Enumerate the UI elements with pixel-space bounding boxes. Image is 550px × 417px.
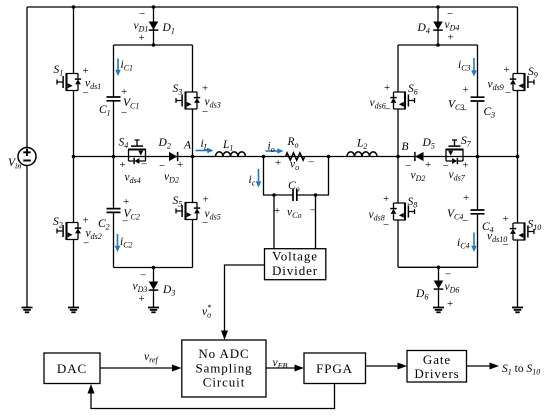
wire S9-S10 rail [517,7,519,308]
current iC4 [473,233,475,247]
svg-text:−: − [83,88,89,100]
current iC2 [117,234,119,247]
inductor L2 [347,152,377,157]
wire Gate Drivers output arrow [467,365,491,367]
block Gate Drivers [407,351,467,383]
block Voltage Divider [265,249,326,280]
wire D4 branch [437,7,439,45]
svg-text:iL: iL [201,138,209,152]
svg-text:L1: L1 [222,139,233,153]
wire voltage divider taps [274,195,316,249]
diode D3 [149,282,159,291]
svg-text:Sampling: Sampling [195,360,252,375]
node A [191,155,195,159]
wire D6 branch [438,267,440,307]
transistor S7 (horizontal, gate up, drain right) [446,140,464,164]
svg-text:+: + [384,82,390,94]
transistor S6 (mirrored) [390,92,414,110]
svg-text:DAC: DAC [57,361,87,376]
svg-text:ic: ic [249,174,256,188]
wire cell1 bottom [114,267,193,269]
svg-text:D3: D3 [162,284,175,298]
svg-text:+: + [425,159,431,171]
svg-text:−: − [505,87,511,99]
node B [396,155,400,159]
svg-text:+: + [275,157,281,169]
current iC1 [117,59,119,71]
svg-text:S1: S1 [54,64,64,78]
svg-text:−: − [445,269,451,281]
svg-text:+: + [503,213,509,225]
current io [266,150,279,152]
block No ADC Sampling Circuit [182,340,266,397]
svg-text:io: io [268,141,275,155]
svg-text:+: + [274,205,280,217]
transistor S9 (mirrored) [510,73,534,91]
svg-text:iC2: iC2 [120,236,133,250]
svg-text:B: B [402,141,409,153]
svg-text:S2: S2 [53,216,63,230]
transistor S4 (horizontal, gate up, drain left) [128,140,146,164]
svg-text:+: + [463,84,469,96]
svg-text:+: + [447,298,453,310]
transistor S1 [57,73,81,91]
ground S2 [68,308,79,313]
svg-text:+: + [83,215,89,227]
svg-text:S4: S4 [119,137,129,151]
transistor S8 (mirrored) [390,203,414,221]
wire left Vin rail upper [26,7,28,148]
transistor S5 [176,202,200,220]
node dots output loop [272,193,276,197]
svg-text:D4: D4 [417,22,430,36]
svg-text:vD4: vD4 [445,19,460,33]
svg-text:−: − [122,216,128,228]
wire cell1 right vertical [192,45,194,268]
transistor S10 (mirrored) [510,223,534,241]
svg-text:vD2: vD2 [164,171,179,185]
svg-text:+: + [202,83,208,95]
current ic [258,169,260,182]
svg-text:−: − [202,217,208,229]
ground D3 [148,308,159,313]
wire top rail [27,6,518,8]
svg-text:−: − [83,238,89,250]
wire D3 branch [153,268,155,308]
svg-text:+: + [504,64,510,76]
svg-text:Voltage: Voltage [272,249,318,264]
svg-text:Gate: Gate [423,352,451,367]
svg-text:+: + [383,193,389,205]
capacitor Co (vertical plates on horizontal wire) [293,189,297,201]
wire cell2 top [398,44,478,46]
svg-text:C2: C2 [98,218,110,232]
svg-text:−: − [462,215,468,227]
svg-text:Vin: Vin [8,157,21,171]
svg-text:S5: S5 [173,195,183,209]
svg-text:iC3: iC3 [458,59,471,73]
svg-text:−: − [383,219,389,231]
svg-text:Divider: Divider [272,263,318,278]
svg-text:+: + [139,293,145,305]
wire cell2 bottom [398,266,478,268]
svg-text:−: − [140,270,146,282]
svg-text:−: − [308,157,314,169]
svg-text:vCo: vCo [287,207,301,221]
svg-text:+: + [463,192,469,204]
svg-text:−: − [461,105,467,117]
svg-text:vref: vref [144,351,159,365]
node dots bus [72,155,76,159]
svg-text:S3: S3 [173,83,183,97]
resistor Ro [286,153,305,160]
diode D2 [169,152,178,161]
capacitor C2 [107,209,121,213]
svg-text:S7: S7 [461,135,472,149]
ground D6 [433,308,444,313]
capacitor C1 [107,97,121,101]
wire divider to sampling [225,265,265,331]
capacitor C4 [471,210,485,214]
svg-text:S9: S9 [528,66,538,80]
svg-text:vo: vo [290,159,299,173]
svg-text:−: − [121,107,127,119]
svg-text:D1: D1 [162,22,175,36]
wire DAC to sampling arrow [100,367,173,369]
svg-text:−: − [385,104,391,116]
block FPGA [304,353,366,384]
block DAC [44,353,100,384]
diode D6 [434,281,444,290]
inductor L1 [216,152,246,157]
svg-text:C1: C1 [99,104,111,118]
svg-text:+: + [123,196,129,208]
svg-text:VC4: VC4 [447,208,463,222]
transistor S3 [176,92,200,110]
svg-text:iC4: iC4 [457,237,470,251]
svg-text:+: + [203,194,209,206]
svg-text:Circuit: Circuit [203,374,245,389]
svg-text:−: − [141,159,147,171]
svg-text:+: + [463,160,469,172]
svg-text:A: A [183,140,192,152]
svg-text:−: − [139,8,145,20]
svg-text:−: − [202,106,208,118]
svg-text:vFB: vFB [273,357,288,371]
wire cell1 top [114,44,193,46]
svg-text:−: − [310,205,316,217]
current iC3 [473,58,475,71]
svg-text:D2: D2 [158,137,171,151]
diode D4 [433,22,443,31]
svg-text:D5: D5 [422,137,435,151]
transistor S2 [57,222,81,240]
wire main bus [74,156,518,158]
ground S10 [512,308,523,313]
svg-text:Ro: Ro [287,136,299,150]
svg-text:iC1: iC1 [121,59,134,73]
wire cell2 right vertical [477,45,479,267]
wire S1-S2 rail [73,7,75,308]
svg-text:vds9: vds9 [488,79,504,93]
svg-text:+: + [120,159,126,171]
svg-text:+: + [448,32,454,44]
source Vin [18,148,36,166]
wire feedback loop [91,384,335,409]
svg-text:vD3: vD3 [133,281,148,295]
svg-text:FPGA: FPGA [316,361,353,376]
svg-text:S6: S6 [408,83,418,97]
wire sampling to FPGA arrow [266,367,295,369]
svg-text:S10: S10 [528,219,542,233]
wire FPGA to Gate Drivers arrow [366,365,399,367]
node dots cell tops/bottoms [152,43,156,47]
wire output lower loop [264,157,329,196]
svg-text:Co: Co [288,180,300,194]
svg-text:Drivers: Drivers [414,366,459,381]
svg-text:L2: L2 [356,138,367,152]
ground Vin [22,308,33,313]
svg-text:S1 to S10: S1 to S10 [502,363,540,377]
wire D1 branch [153,7,155,45]
svg-text:No ADC: No ADC [198,346,249,361]
svg-text:S8: S8 [408,196,418,210]
node dots top rail [72,5,76,9]
svg-text:+: + [83,65,89,77]
svg-text:v*o: v*o [202,303,211,320]
current iL [196,150,209,152]
svg-text:−: − [503,239,509,251]
svg-text:+: + [177,159,183,171]
capacitor C3 [471,97,485,101]
svg-text:+: + [139,32,145,44]
diode D1 [149,22,159,31]
wire left Vin rail lower [26,166,28,308]
svg-text:C3: C3 [484,106,496,120]
diode D5 [415,152,424,161]
svg-text:D6: D6 [415,288,428,302]
wire cell1 left vertical [113,45,115,268]
wire cell2 left vertical [397,45,399,267]
svg-text:vds6: vds6 [370,97,386,111]
svg-text:vD2: vD2 [411,170,426,184]
svg-text:vds4: vds4 [125,172,141,186]
svg-text:vD6: vD6 [445,281,460,295]
